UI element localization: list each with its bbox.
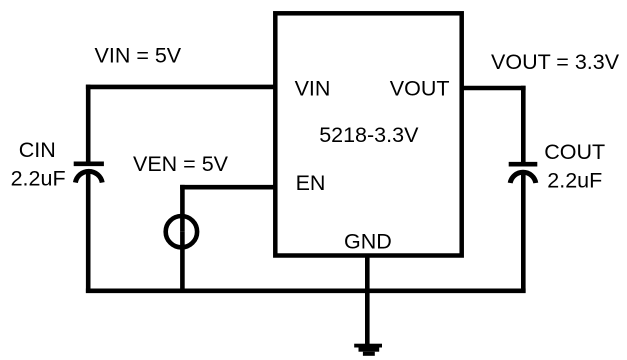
svg-text:VOUT: VOUT	[390, 77, 450, 101]
ground symbol bar 2	[359, 348, 380, 352]
capacitor C1 CIN top plate	[74, 162, 104, 167]
wire VIN horizontal	[86, 85, 276, 90]
ground symbol bar 1	[354, 344, 382, 348]
wire EN horizontal	[180, 185, 275, 190]
capacitor C1 CIN curved plate	[75, 171, 102, 182]
wire VOUT horizontal	[461, 86, 525, 91]
wire right rail upper	[521, 86, 526, 164]
svg-text:VEN = 5V: VEN = 5V	[133, 152, 229, 176]
svg-text:2.2uF: 2.2uF	[547, 168, 602, 192]
svg-text:VIN = 5V: VIN = 5V	[95, 43, 182, 67]
capacitor C2 COUT top plate	[509, 162, 538, 167]
svg-text:COUT: COUT	[544, 140, 605, 164]
svg-text:VIN: VIN	[295, 77, 331, 101]
svg-text:EN: EN	[296, 171, 326, 195]
svg-text:VOUT = 3.3V: VOUT = 3.3V	[491, 50, 620, 74]
wire right rail lower	[521, 171, 526, 293]
svg-text:2.2uF: 2.2uF	[11, 166, 66, 190]
ground symbol bar 3	[363, 352, 375, 356]
wire left rail upper	[86, 85, 91, 164]
wire EN vertical lower	[180, 232, 185, 293]
wire EN vertical upper	[180, 185, 185, 232]
svg-text:5218-3.3V: 5218-3.3V	[319, 123, 419, 147]
svg-text:CIN: CIN	[19, 138, 56, 162]
svg-text:GND: GND	[344, 230, 392, 254]
wire GND stem	[365, 256, 370, 348]
source V1 enable circle	[166, 216, 197, 247]
wire left rail lower	[86, 171, 91, 293]
capacitor C2 COUT curved plate	[510, 172, 536, 183]
op-amp U1 regulator body 5218-3.3V	[275, 13, 461, 255]
wire bottom rail	[86, 288, 526, 293]
